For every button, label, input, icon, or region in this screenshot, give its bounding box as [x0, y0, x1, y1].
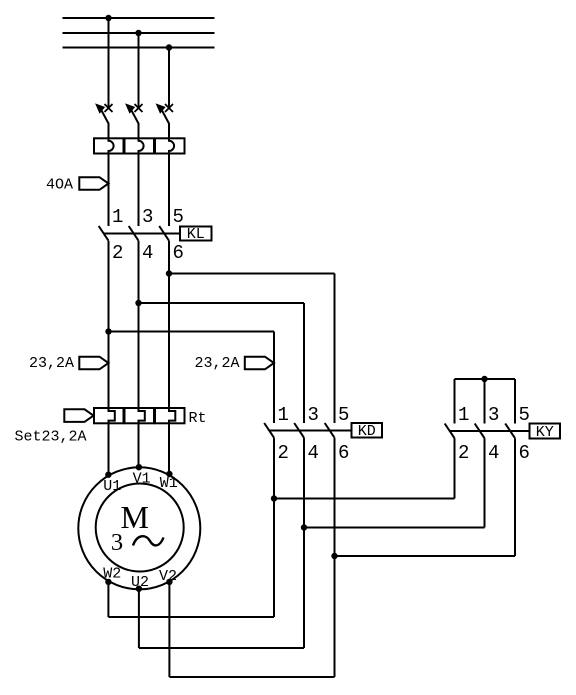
wire W2 to KD2	[108, 616, 274, 618]
svg-text:W1: W1	[160, 475, 178, 492]
thermal relay Rt element 2	[125, 408, 155, 423]
node branch L2	[135, 300, 141, 306]
label Set23,2A flag	[64, 409, 93, 422]
wire KD6 down	[334, 438, 336, 677]
svg-text:4OA: 4OA	[46, 177, 73, 194]
contactor KD pole 1	[264, 423, 274, 438]
svg-text:3: 3	[308, 404, 319, 426]
wire branch L3 to KD5	[169, 273, 335, 275]
contactor KY pole 2	[475, 424, 485, 439]
svg-text:U1: U1	[103, 478, 121, 495]
wire fuse1 to KL1	[108, 154, 110, 227]
motor M inner circle	[96, 484, 184, 572]
contactor KY pole 1	[445, 424, 455, 439]
svg-text:KL: KL	[187, 226, 205, 243]
node KD4-KY4	[301, 524, 307, 530]
svg-text:4: 4	[488, 442, 499, 464]
wire V2 down	[168, 582, 170, 677]
node KY star	[481, 376, 487, 382]
svg-text:Set23,2A: Set23,2A	[15, 429, 87, 446]
node W1	[166, 471, 172, 477]
motor tilde	[133, 536, 164, 545]
svg-text:5: 5	[338, 404, 349, 426]
fuse F2	[125, 138, 155, 153]
contactor KY label box	[530, 424, 561, 439]
node L3 tap	[166, 44, 172, 50]
wire KD6 to KY6	[335, 555, 516, 557]
svg-text:3: 3	[142, 206, 153, 228]
wire fuse2 to KL3	[138, 154, 140, 227]
wire KD4 to KY4	[304, 527, 485, 529]
contactor KD pole 3	[325, 423, 335, 438]
wire U2 to KD4	[139, 647, 304, 649]
KD linkage line	[269, 430, 351, 432]
contactor KL label box	[180, 227, 212, 241]
svg-text:1: 1	[112, 206, 123, 228]
svg-text:2: 2	[278, 442, 289, 464]
wire KD1 feeder	[273, 332, 275, 424]
switch QS pole 1	[96, 104, 113, 124]
svg-text:U2: U2	[131, 574, 149, 591]
wire switch3 to fuse3	[168, 123, 170, 138]
bus L2	[63, 32, 215, 34]
svg-text:5: 5	[173, 206, 184, 228]
svg-text:V1: V1	[133, 471, 151, 488]
svg-text:23,2A: 23,2A	[29, 355, 74, 372]
contactor KD pole 2	[294, 423, 304, 438]
wire KD4 down	[303, 438, 305, 648]
switch QS pole 2	[126, 104, 143, 124]
contactor KL pole 1	[99, 226, 109, 241]
bus L3	[63, 47, 215, 49]
wire KD3 feeder	[303, 303, 305, 423]
node V2	[166, 579, 172, 585]
motor M outer circle	[78, 467, 200, 589]
svg-text:6: 6	[519, 442, 530, 464]
wire KY5 feeder	[514, 379, 516, 424]
svg-text:3: 3	[111, 529, 123, 556]
wire KL4 down	[138, 241, 140, 411]
wire KY2 down	[454, 438, 456, 498]
label 40A flag	[79, 177, 108, 190]
thermal relay Rt element 3	[155, 408, 185, 423]
contactor KY pole 3	[505, 424, 515, 439]
label 23,2A left flag	[79, 357, 108, 370]
node branch L3	[166, 270, 172, 276]
label 23,2A right flag	[245, 357, 274, 370]
svg-text:M: M	[120, 499, 148, 535]
node U1	[105, 472, 111, 478]
fuse F3	[155, 138, 185, 153]
svg-text:V2: V2	[159, 568, 177, 585]
svg-text:1: 1	[278, 404, 289, 426]
switch QS pole 3	[157, 104, 174, 124]
svg-text:5: 5	[519, 404, 530, 426]
wire KD2 to KY2	[274, 498, 455, 500]
contactor KL pole 3	[159, 226, 169, 241]
wire Rt1 to U1	[108, 423, 110, 474]
node L1 tap	[105, 15, 111, 21]
wire KY star bar	[455, 378, 516, 380]
wire branch L2 to KD3	[139, 302, 305, 304]
bus L1	[63, 17, 215, 19]
wire branch L1 to KD1	[109, 331, 275, 333]
wire V2 to KD6	[169, 676, 334, 678]
wire switch1 to fuse1	[108, 123, 110, 138]
wire KL2 down	[108, 241, 110, 411]
wire switch2 to fuse2	[138, 123, 140, 138]
svg-text:W2: W2	[103, 565, 121, 582]
svg-text:4: 4	[308, 442, 319, 464]
svg-text:2: 2	[458, 442, 469, 464]
svg-text:KY: KY	[536, 424, 554, 441]
fuse F1	[94, 138, 124, 153]
node branch L1	[105, 328, 111, 334]
wire KY6 down	[514, 438, 516, 556]
svg-text:KD: KD	[358, 423, 376, 440]
svg-text:Rt: Rt	[189, 410, 207, 427]
thermal relay Rt element 1	[94, 408, 124, 423]
svg-text:3: 3	[488, 404, 499, 426]
svg-text:1: 1	[458, 404, 469, 426]
contactor KD label box	[352, 423, 383, 438]
node V1	[136, 464, 142, 470]
wire KD2 down	[273, 438, 275, 617]
wire KL6 down	[168, 241, 170, 411]
wire L3 drop	[168, 48, 170, 109]
wire KY3 feeder	[484, 379, 486, 424]
wire L1 drop	[108, 18, 110, 108]
node W2	[105, 579, 111, 585]
svg-text:23,2A: 23,2A	[194, 355, 239, 372]
wire KD5 feeder	[334, 274, 336, 424]
wire U2 down	[138, 589, 140, 648]
node L2 tap	[135, 30, 141, 36]
contactor KL pole 2	[129, 226, 139, 241]
node KD2-KY2	[271, 495, 277, 501]
svg-text:6: 6	[173, 242, 184, 264]
wire Rt3 to W1	[168, 423, 170, 474]
KY linkage line	[450, 430, 530, 432]
wire L2 drop	[138, 33, 140, 108]
wire fuse3 to KL5	[168, 154, 170, 227]
wire KY1 feeder	[454, 379, 456, 424]
svg-text:6: 6	[338, 442, 349, 464]
KL linkage line	[104, 233, 180, 235]
wire KY4 down	[484, 438, 486, 527]
svg-text:2: 2	[112, 242, 123, 264]
node U2	[136, 586, 142, 592]
wire Rt2 to V1	[138, 423, 140, 467]
node KD6-KY6	[331, 553, 337, 559]
svg-text:4: 4	[142, 242, 153, 264]
wire W2 down	[107, 582, 109, 617]
